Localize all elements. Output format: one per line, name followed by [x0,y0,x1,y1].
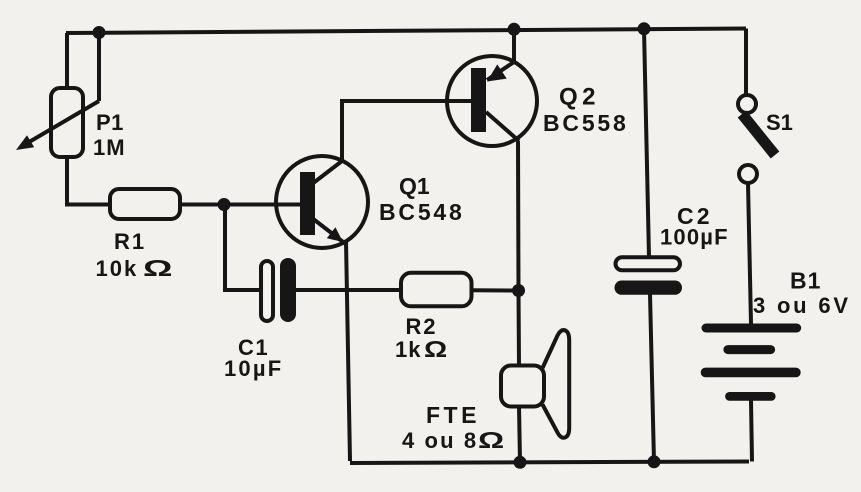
transistor Q1 [276,156,368,248]
resistor R2 [401,273,472,307]
wire speaker to bottom rail [519,406,520,462]
wire R1 to base node [180,203,224,207]
wire node to Q1 base [224,203,301,207]
svg-text:1M: 1M [93,135,126,160]
node C2 top on rail [638,22,651,35]
svg-text:B1: B1 [790,268,821,294]
svg-text:BC548: BC548 [379,199,465,225]
svg-text:Ω: Ω [424,336,447,362]
svg-text:FTE: FTE [426,402,480,428]
speaker FTE [501,330,569,438]
node Q1 base junction [218,198,231,211]
transistor Q2 [447,56,537,146]
battery B1 [701,324,802,401]
wire top-left drop to P1 [65,33,69,90]
wire R2 to collector node [472,288,520,292]
wire C1 to R2 [296,288,401,292]
svg-text:Q2: Q2 [559,84,600,111]
svg-text:BC558: BC558 [543,110,629,136]
resistor R1 [110,189,180,219]
wire battery to bottom rail [751,401,752,462]
potentiometer P1 [16,33,99,158]
wire top rail [66,29,746,34]
wire C2 top [644,29,649,258]
capacitor C1 [261,258,296,322]
svg-text:10µF: 10µF [224,356,283,381]
capacitor C2 [615,257,683,295]
svg-text:R1: R1 [114,229,146,254]
wire Q2 collector down to node [516,141,521,291]
switch S1 [738,29,775,184]
wire Q1 collector up to Q2 base [342,101,472,161]
svg-text:P1: P1 [96,110,124,135]
svg-text:Q1: Q1 [399,173,430,199]
node P1 wiper tap on top rail [93,26,106,39]
svg-text:Ω: Ω [143,255,172,281]
wire Q1 emitter down to bottom rail [346,241,350,461]
node Q2 collector junction [512,284,525,297]
svg-text:S1: S1 [766,110,793,135]
wire P1 bottom to R1 [67,157,110,205]
svg-text:1k: 1k [395,337,421,362]
svg-text:100µF: 100µF [660,225,729,250]
wire bottom rail [350,462,749,464]
node Q2 emitter on top rail [508,23,521,36]
node speaker bottom junction [514,456,527,469]
svg-text:10k: 10k [96,256,139,281]
svg-text:3 ou 6V: 3 ou 6V [753,293,851,318]
wire Q2 emitter to top rail [512,30,516,63]
wire S1 to battery [748,183,751,324]
svg-text:4 ou 8: 4 ou 8 [402,428,478,453]
wire C2 bottom [650,294,654,462]
wire node down to C1 [225,205,261,291]
wire node down to speaker [517,291,522,367]
node C2 bottom junction [648,455,661,468]
svg-text:Ω: Ω [478,427,504,453]
